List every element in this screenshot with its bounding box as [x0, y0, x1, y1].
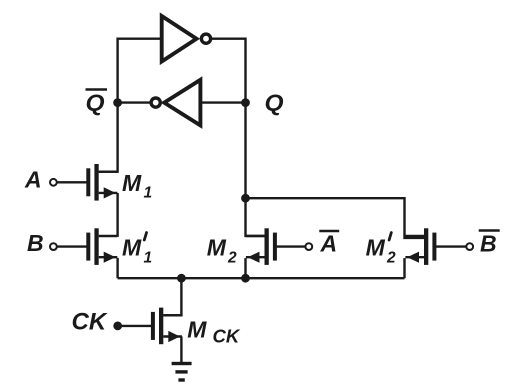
svg-text:1: 1 [144, 185, 153, 202]
svg-text:M: M [187, 316, 207, 342]
svg-text:CK: CK [213, 325, 241, 346]
svg-text:2: 2 [227, 249, 237, 266]
svg-text:A: A [320, 231, 338, 257]
svg-text:B: B [27, 230, 44, 256]
svg-text:A: A [24, 167, 42, 193]
svg-text:M: M [122, 170, 142, 196]
svg-text:B: B [480, 231, 497, 257]
svg-text:M: M [366, 234, 386, 260]
svg-text:Q: Q [265, 89, 284, 115]
svg-text:2: 2 [386, 249, 396, 266]
svg-text:M: M [122, 234, 142, 260]
svg-text:1: 1 [144, 249, 153, 266]
svg-text:M: M [207, 234, 227, 260]
svg-text:Q: Q [86, 89, 105, 115]
svg-text:CK: CK [72, 309, 108, 336]
